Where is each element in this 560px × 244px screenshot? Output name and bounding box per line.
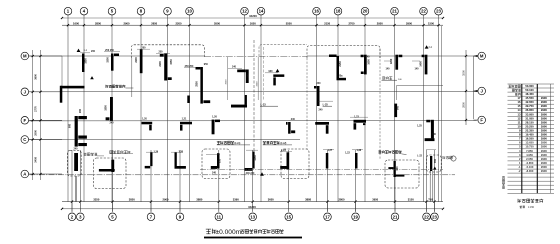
svg-text:750: 750 bbox=[428, 198, 433, 202]
right leader arrowheads bbox=[473, 55, 477, 57]
left grid bubbles M J F C A bbox=[21, 52, 29, 60]
shear wall W27 L-shape bbox=[111, 160, 114, 172]
shear wall W21 bbox=[212, 120, 215, 135]
node M grid line horizontal bbox=[29, 55, 204, 57]
svg-text:15: 15 bbox=[518, 104, 521, 108]
svg-text:21: 21 bbox=[392, 9, 397, 14]
svg-text:34200: 34200 bbox=[248, 205, 256, 209]
wire grid vertical lines from bottom grid bubbles bbox=[71, 150, 73, 212]
svg-text:23: 23 bbox=[432, 214, 437, 219]
shear wall W16 E-shape bbox=[75, 116, 78, 147]
table caption bbox=[517, 199, 519, 203]
svg-text:240: 240 bbox=[432, 133, 437, 136]
svg-text:650: 650 bbox=[434, 158, 437, 163]
svg-text:2800: 2800 bbox=[95, 21, 101, 25]
node B grid line dash-dot bbox=[200, 169, 443, 171]
wire interior partition line x132 bbox=[131, 58, 133, 97]
table rows text bbox=[509, 84, 512, 86]
shear wall W22 bbox=[288, 122, 291, 134]
shear wall W32a bbox=[326, 153, 329, 169]
svg-text:34200: 34200 bbox=[249, 14, 257, 18]
svg-text:240: 240 bbox=[232, 66, 237, 69]
svg-text:240 240: 240 240 bbox=[246, 172, 255, 175]
shear wall W12 corner bbox=[237, 70, 246, 73]
shear wall W14 bbox=[231, 105, 247, 108]
svg-text:3600: 3600 bbox=[268, 198, 274, 202]
svg-text:2900: 2900 bbox=[541, 100, 547, 104]
svg-text:3880: 3880 bbox=[305, 198, 311, 202]
dashed envelope side left of right wing bbox=[306, 58, 308, 149]
top dimension line bbox=[62, 24, 443, 26]
svg-text:2900: 2900 bbox=[541, 161, 547, 165]
svg-text:1,23: 1,23 bbox=[281, 149, 286, 152]
svg-text:1,26: 1,26 bbox=[212, 115, 217, 118]
floor elevation table bbox=[508, 83, 555, 85]
svg-text:42.650: 42.650 bbox=[525, 100, 534, 104]
shear wall W20 corner bbox=[180, 122, 192, 125]
svg-text:L-23: L-23 bbox=[261, 103, 267, 106]
label 240 underlined machine bbox=[382, 76, 385, 78]
svg-text:240: 240 bbox=[317, 82, 322, 85]
svg-text:2900: 2900 bbox=[541, 145, 547, 149]
shear wall W24 bbox=[394, 104, 397, 118]
bottom overall dimension line 34200 bbox=[62, 208, 443, 210]
svg-text:14: 14 bbox=[259, 9, 264, 14]
top grid bubbles bbox=[64, 7, 72, 15]
svg-text:28.150: 28.150 bbox=[525, 120, 534, 124]
svg-text:3390: 3390 bbox=[233, 198, 239, 202]
svg-text:1600: 1600 bbox=[367, 59, 370, 65]
svg-text:1400: 1400 bbox=[420, 61, 423, 67]
bottom grid bubbles bbox=[68, 213, 76, 221]
right grid bubbles M J F bbox=[478, 52, 486, 60]
svg-text:-5.100: -5.100 bbox=[526, 165, 534, 169]
wire grid vertical lines from top grid bubbles bbox=[67, 15, 69, 202]
label right stair text bbox=[442, 156, 444, 159]
dashed bay outline around W29 bbox=[202, 149, 230, 179]
dashed bay window outline lower-left bbox=[94, 158, 127, 189]
svg-text:2900: 2900 bbox=[541, 125, 547, 129]
svg-text:2770: 2770 bbox=[34, 106, 38, 112]
bottom grid bubble stubs bbox=[71, 201, 73, 212]
svg-text:240: 240 bbox=[247, 73, 250, 78]
svg-text:1,28: 1,28 bbox=[356, 149, 361, 152]
shear wall W1 bbox=[82, 54, 85, 73]
svg-text:250: 250 bbox=[159, 51, 164, 54]
svg-text:240: 240 bbox=[110, 122, 115, 125]
svg-text:2900: 2900 bbox=[541, 96, 547, 100]
shear wall W30 bbox=[252, 152, 254, 169]
label elevator text bbox=[110, 150, 113, 152]
wire interior partition lines right unit bbox=[397, 85, 444, 87]
svg-text:13: 13 bbox=[518, 112, 521, 116]
shear wall W33 elevator bbox=[394, 161, 396, 177]
svg-text:900: 900 bbox=[396, 105, 399, 110]
shear wall W6 L-shape bbox=[61, 86, 85, 89]
svg-text:2650: 2650 bbox=[151, 21, 157, 25]
svg-text:200: 200 bbox=[91, 50, 96, 53]
dashed envelope middle segment bbox=[259, 45, 307, 56]
dashed envelope side right of right wing bbox=[379, 49, 381, 161]
svg-text:1500: 1500 bbox=[428, 21, 434, 25]
wire dashed elevator-shaft centerline bbox=[253, 40, 255, 162]
svg-text:3500: 3500 bbox=[462, 70, 466, 76]
svg-text:36.850: 36.850 bbox=[525, 108, 534, 112]
svg-text:±0.000m: ±0.000m bbox=[216, 229, 242, 236]
section marker 7-7 bbox=[74, 167, 77, 170]
svg-text:3250: 3250 bbox=[93, 198, 99, 202]
svg-text:7.850: 7.850 bbox=[526, 149, 533, 153]
svg-text:1250: 1250 bbox=[254, 155, 257, 161]
node F grid line horizontal bbox=[29, 120, 477, 122]
svg-text:1,21: 1,21 bbox=[182, 117, 187, 120]
top overall dimension line bbox=[62, 17, 443, 19]
svg-text:2900: 2900 bbox=[541, 149, 547, 153]
shear wall W11 bbox=[425, 55, 428, 75]
svg-text:2900: 2900 bbox=[541, 104, 547, 108]
svg-text:2800: 2800 bbox=[339, 198, 345, 202]
left vertical dimension line outer bbox=[32, 50, 34, 180]
interior dimension line 3000 bbox=[227, 57, 229, 100]
label wall code text 2 bbox=[263, 141, 266, 143]
svg-text:2200: 2200 bbox=[176, 21, 182, 25]
svg-text:1,20: 1,20 bbox=[142, 117, 147, 120]
svg-text:950: 950 bbox=[219, 158, 222, 163]
svg-text:1500: 1500 bbox=[106, 57, 109, 63]
svg-text:12: 12 bbox=[242, 9, 247, 14]
shear wall W13 corner bbox=[273, 74, 284, 77]
svg-text:2900: 2900 bbox=[541, 141, 547, 145]
dashed stair outline lower-left tall bbox=[67, 151, 81, 177]
section marker 4-4 bbox=[260, 172, 264, 175]
svg-text:2950: 2950 bbox=[377, 21, 383, 25]
svg-text:16: 16 bbox=[314, 9, 319, 14]
svg-text:1,25: 1,25 bbox=[417, 125, 422, 128]
svg-text:2000: 2000 bbox=[34, 129, 38, 135]
svg-text:2900: 2900 bbox=[541, 116, 547, 120]
svg-text:2900: 2900 bbox=[541, 129, 547, 133]
svg-text:3450: 3450 bbox=[34, 156, 38, 162]
svg-text:600: 600 bbox=[69, 123, 72, 128]
svg-text:140: 140 bbox=[415, 68, 420, 71]
wire W34 wall edge extensions bbox=[429, 171, 431, 202]
svg-text:2900: 2900 bbox=[541, 112, 547, 116]
svg-text:13.650: 13.650 bbox=[525, 141, 534, 145]
svg-text:-8.000: -8.000 bbox=[526, 169, 534, 173]
svg-text:19: 19 bbox=[353, 214, 358, 219]
svg-text:2900: 2900 bbox=[541, 153, 547, 157]
svg-text:45.550: 45.550 bbox=[525, 96, 534, 100]
shear wall W2 bbox=[111, 54, 114, 71]
dashed elevator machine room outline lower-middle-right bbox=[385, 160, 419, 188]
dashed stair outline lower-right bbox=[427, 155, 442, 172]
dashed balcony outline upper-right wing bbox=[307, 46, 380, 59]
svg-text:240: 240 bbox=[212, 171, 217, 174]
right secondary vertical line bbox=[472, 56, 474, 119]
svg-text:L-25: L-25 bbox=[323, 103, 329, 106]
shear wall W23 corner bbox=[354, 120, 367, 123]
svg-text:1,25a: 1,25a bbox=[337, 75, 344, 78]
shear wall W12b stub bbox=[245, 95, 247, 105]
svg-text:10.750: 10.750 bbox=[525, 145, 534, 149]
svg-text:3000: 3000 bbox=[226, 79, 228, 85]
node C grid line horizontal bbox=[29, 139, 300, 141]
small dimension stubs bbox=[80, 52, 90, 54]
left vertical dimension line inner bbox=[40, 50, 42, 180]
interior dimension line 3300 bbox=[257, 57, 259, 100]
svg-text:2900: 2900 bbox=[124, 21, 130, 25]
svg-text:250 250: 250 250 bbox=[185, 65, 194, 68]
shear wall W19 corner bbox=[142, 122, 153, 125]
svg-text:250 250: 250 250 bbox=[105, 49, 114, 52]
shear wall W17 bbox=[110, 97, 113, 121]
shear wall V2 bbox=[187, 96, 190, 104]
shear wall W28a bbox=[150, 152, 152, 166]
svg-text:1,29: 1,29 bbox=[153, 150, 158, 153]
svg-text:14: 14 bbox=[518, 108, 521, 112]
shear wall W32b bbox=[355, 153, 358, 169]
svg-text:2800: 2800 bbox=[462, 102, 466, 108]
svg-text:A: A bbox=[23, 172, 26, 177]
svg-text:2900: 2900 bbox=[541, 169, 547, 173]
wire right plan edge line bbox=[441, 26, 443, 202]
shear wall W22b corner bbox=[315, 122, 329, 125]
svg-text:2.050: 2.050 bbox=[526, 157, 533, 161]
svg-text:31.050: 31.050 bbox=[525, 116, 534, 120]
shear wall W4 Z-shape bbox=[164, 54, 167, 81]
label wall code text 1 bbox=[217, 140, 220, 142]
shear wall W25 bbox=[431, 120, 434, 139]
svg-text:3850: 3850 bbox=[129, 198, 135, 202]
svg-text:900: 900 bbox=[269, 70, 274, 73]
svg-text:2400: 2400 bbox=[159, 61, 162, 67]
shear wall W26 bbox=[74, 153, 78, 171]
shear wall W7 bbox=[317, 86, 320, 106]
shear wall W31 bbox=[287, 152, 290, 169]
drawing title pseudo text bbox=[206, 228, 211, 230]
svg-text:13: 13 bbox=[250, 214, 255, 219]
svg-text:140: 140 bbox=[366, 56, 371, 59]
svg-text:200: 200 bbox=[142, 46, 147, 49]
svg-text:53.000: 53.000 bbox=[525, 84, 534, 88]
label stair text bbox=[84, 152, 87, 154]
svg-text:1650: 1650 bbox=[250, 21, 256, 25]
svg-text:2900: 2900 bbox=[541, 137, 547, 141]
svg-text:1:150: 1:150 bbox=[528, 206, 535, 209]
svg-text:22: 22 bbox=[421, 9, 426, 14]
svg-text:900: 900 bbox=[79, 108, 82, 113]
svg-text:23: 23 bbox=[436, 9, 441, 14]
svg-text:5550: 5550 bbox=[286, 21, 292, 25]
node A grid line horizontal dash-dot bbox=[29, 174, 455, 176]
svg-text:140: 140 bbox=[386, 68, 391, 71]
label machine room text bbox=[379, 150, 382, 152]
svg-text:1550: 1550 bbox=[170, 59, 173, 65]
svg-text:900: 900 bbox=[396, 166, 399, 171]
svg-text:M: M bbox=[23, 54, 27, 59]
svg-text:21: 21 bbox=[393, 214, 398, 219]
node J grid line horizontal bbox=[29, 91, 477, 93]
shear wall W29 L-shape bbox=[217, 153, 220, 168]
svg-text:240: 240 bbox=[291, 118, 296, 121]
svg-text:10: 10 bbox=[518, 125, 521, 129]
shear wall W9 bbox=[364, 55, 367, 75]
section marker 5-5 bbox=[433, 167, 436, 170]
svg-text:20: 20 bbox=[363, 9, 368, 14]
label living room text bbox=[105, 85, 107, 88]
svg-text:1850: 1850 bbox=[85, 58, 88, 64]
svg-text:240: 240 bbox=[74, 148, 79, 151]
table caption small bbox=[520, 205, 523, 207]
title underline bbox=[204, 237, 302, 239]
svg-text:33.950: 33.950 bbox=[525, 112, 534, 116]
svg-text:3300: 3300 bbox=[256, 81, 258, 87]
svg-text:2900: 2900 bbox=[406, 21, 412, 25]
svg-text:3880: 3880 bbox=[196, 198, 202, 202]
svg-text:19.450: 19.450 bbox=[525, 133, 534, 137]
svg-text:16: 16 bbox=[518, 100, 521, 104]
svg-text:18: 18 bbox=[336, 9, 341, 14]
svg-text:11: 11 bbox=[217, 214, 222, 219]
svg-text:4.950: 4.950 bbox=[526, 153, 533, 157]
svg-text:-0.850: -0.850 bbox=[526, 161, 534, 165]
svg-text:50.100: 50.100 bbox=[525, 88, 534, 92]
shear wall V1 long bbox=[200, 67, 203, 104]
dashed balcony outline upper-left wing bbox=[131, 45, 204, 58]
svg-text:12: 12 bbox=[518, 116, 521, 120]
svg-text:2900: 2900 bbox=[163, 198, 169, 202]
wire left plan edge line bbox=[61, 56, 63, 86]
svg-text:C: C bbox=[23, 137, 26, 142]
section marker 1-1 bbox=[77, 49, 81, 52]
shear wall W34 bbox=[430, 156, 432, 171]
shear wall W3 bbox=[140, 49, 143, 73]
svg-text:1600: 1600 bbox=[73, 21, 79, 25]
svg-text:10: 10 bbox=[187, 9, 192, 14]
svg-text:M: M bbox=[480, 54, 484, 59]
svg-text:22.350: 22.350 bbox=[525, 129, 534, 133]
svg-text:5500: 5500 bbox=[214, 21, 220, 25]
svg-text:2700: 2700 bbox=[349, 21, 355, 25]
svg-text:1,30: 1,30 bbox=[178, 150, 183, 153]
svg-text:2400: 2400 bbox=[135, 57, 138, 63]
svg-text:15: 15 bbox=[286, 214, 291, 219]
right vertical dimension line bbox=[465, 50, 467, 125]
svg-text:2900: 2900 bbox=[541, 108, 547, 112]
svg-text:F: F bbox=[480, 118, 483, 123]
small grid bubble N bbox=[451, 156, 456, 161]
shear wall W28b bbox=[175, 152, 177, 166]
svg-text:2150: 2150 bbox=[339, 61, 342, 67]
svg-text:48.450: 48.450 bbox=[525, 92, 534, 96]
svg-text:1,22: 1,22 bbox=[345, 152, 350, 155]
dashed bay outline around W31 bbox=[281, 149, 309, 179]
table side rotated label bbox=[502, 175, 505, 177]
svg-text:3600: 3600 bbox=[34, 73, 38, 79]
svg-text:L-22: L-22 bbox=[417, 156, 422, 158]
section marker 6-6 bbox=[90, 76, 94, 79]
section marker 2-2 bbox=[425, 45, 429, 48]
svg-text:F: F bbox=[23, 118, 26, 123]
wire dashed shaft line 2 bbox=[263, 47, 265, 100]
svg-text:3950: 3950 bbox=[372, 198, 378, 202]
shear wall W8 bbox=[337, 56, 340, 80]
svg-text:2600: 2600 bbox=[541, 165, 547, 169]
svg-text:240: 240 bbox=[319, 109, 324, 112]
wire wall edge extension lines bbox=[75, 176, 77, 202]
svg-text:16.550: 16.550 bbox=[525, 137, 534, 141]
svg-text:25.250: 25.250 bbox=[525, 125, 534, 129]
svg-text:2900: 2900 bbox=[541, 120, 547, 124]
svg-text:1,27: 1,27 bbox=[327, 149, 332, 152]
svg-text:22: 22 bbox=[424, 214, 429, 219]
svg-text:2150: 2150 bbox=[324, 21, 330, 25]
svg-text:17: 17 bbox=[518, 96, 521, 100]
svg-text:39.750: 39.750 bbox=[525, 104, 534, 108]
svg-text:2900: 2900 bbox=[541, 157, 547, 161]
svg-text:950: 950 bbox=[204, 63, 209, 66]
shear wall W10 bbox=[395, 55, 398, 70]
svg-text:3150: 3150 bbox=[408, 198, 414, 202]
svg-text:1800: 1800 bbox=[104, 105, 107, 111]
section marker 3-3 bbox=[276, 69, 280, 72]
bottom dimension line (bays) bbox=[62, 201, 443, 203]
svg-text:17: 17 bbox=[325, 214, 330, 219]
svg-text:2550: 2550 bbox=[196, 81, 199, 87]
svg-text:2900: 2900 bbox=[541, 133, 547, 137]
